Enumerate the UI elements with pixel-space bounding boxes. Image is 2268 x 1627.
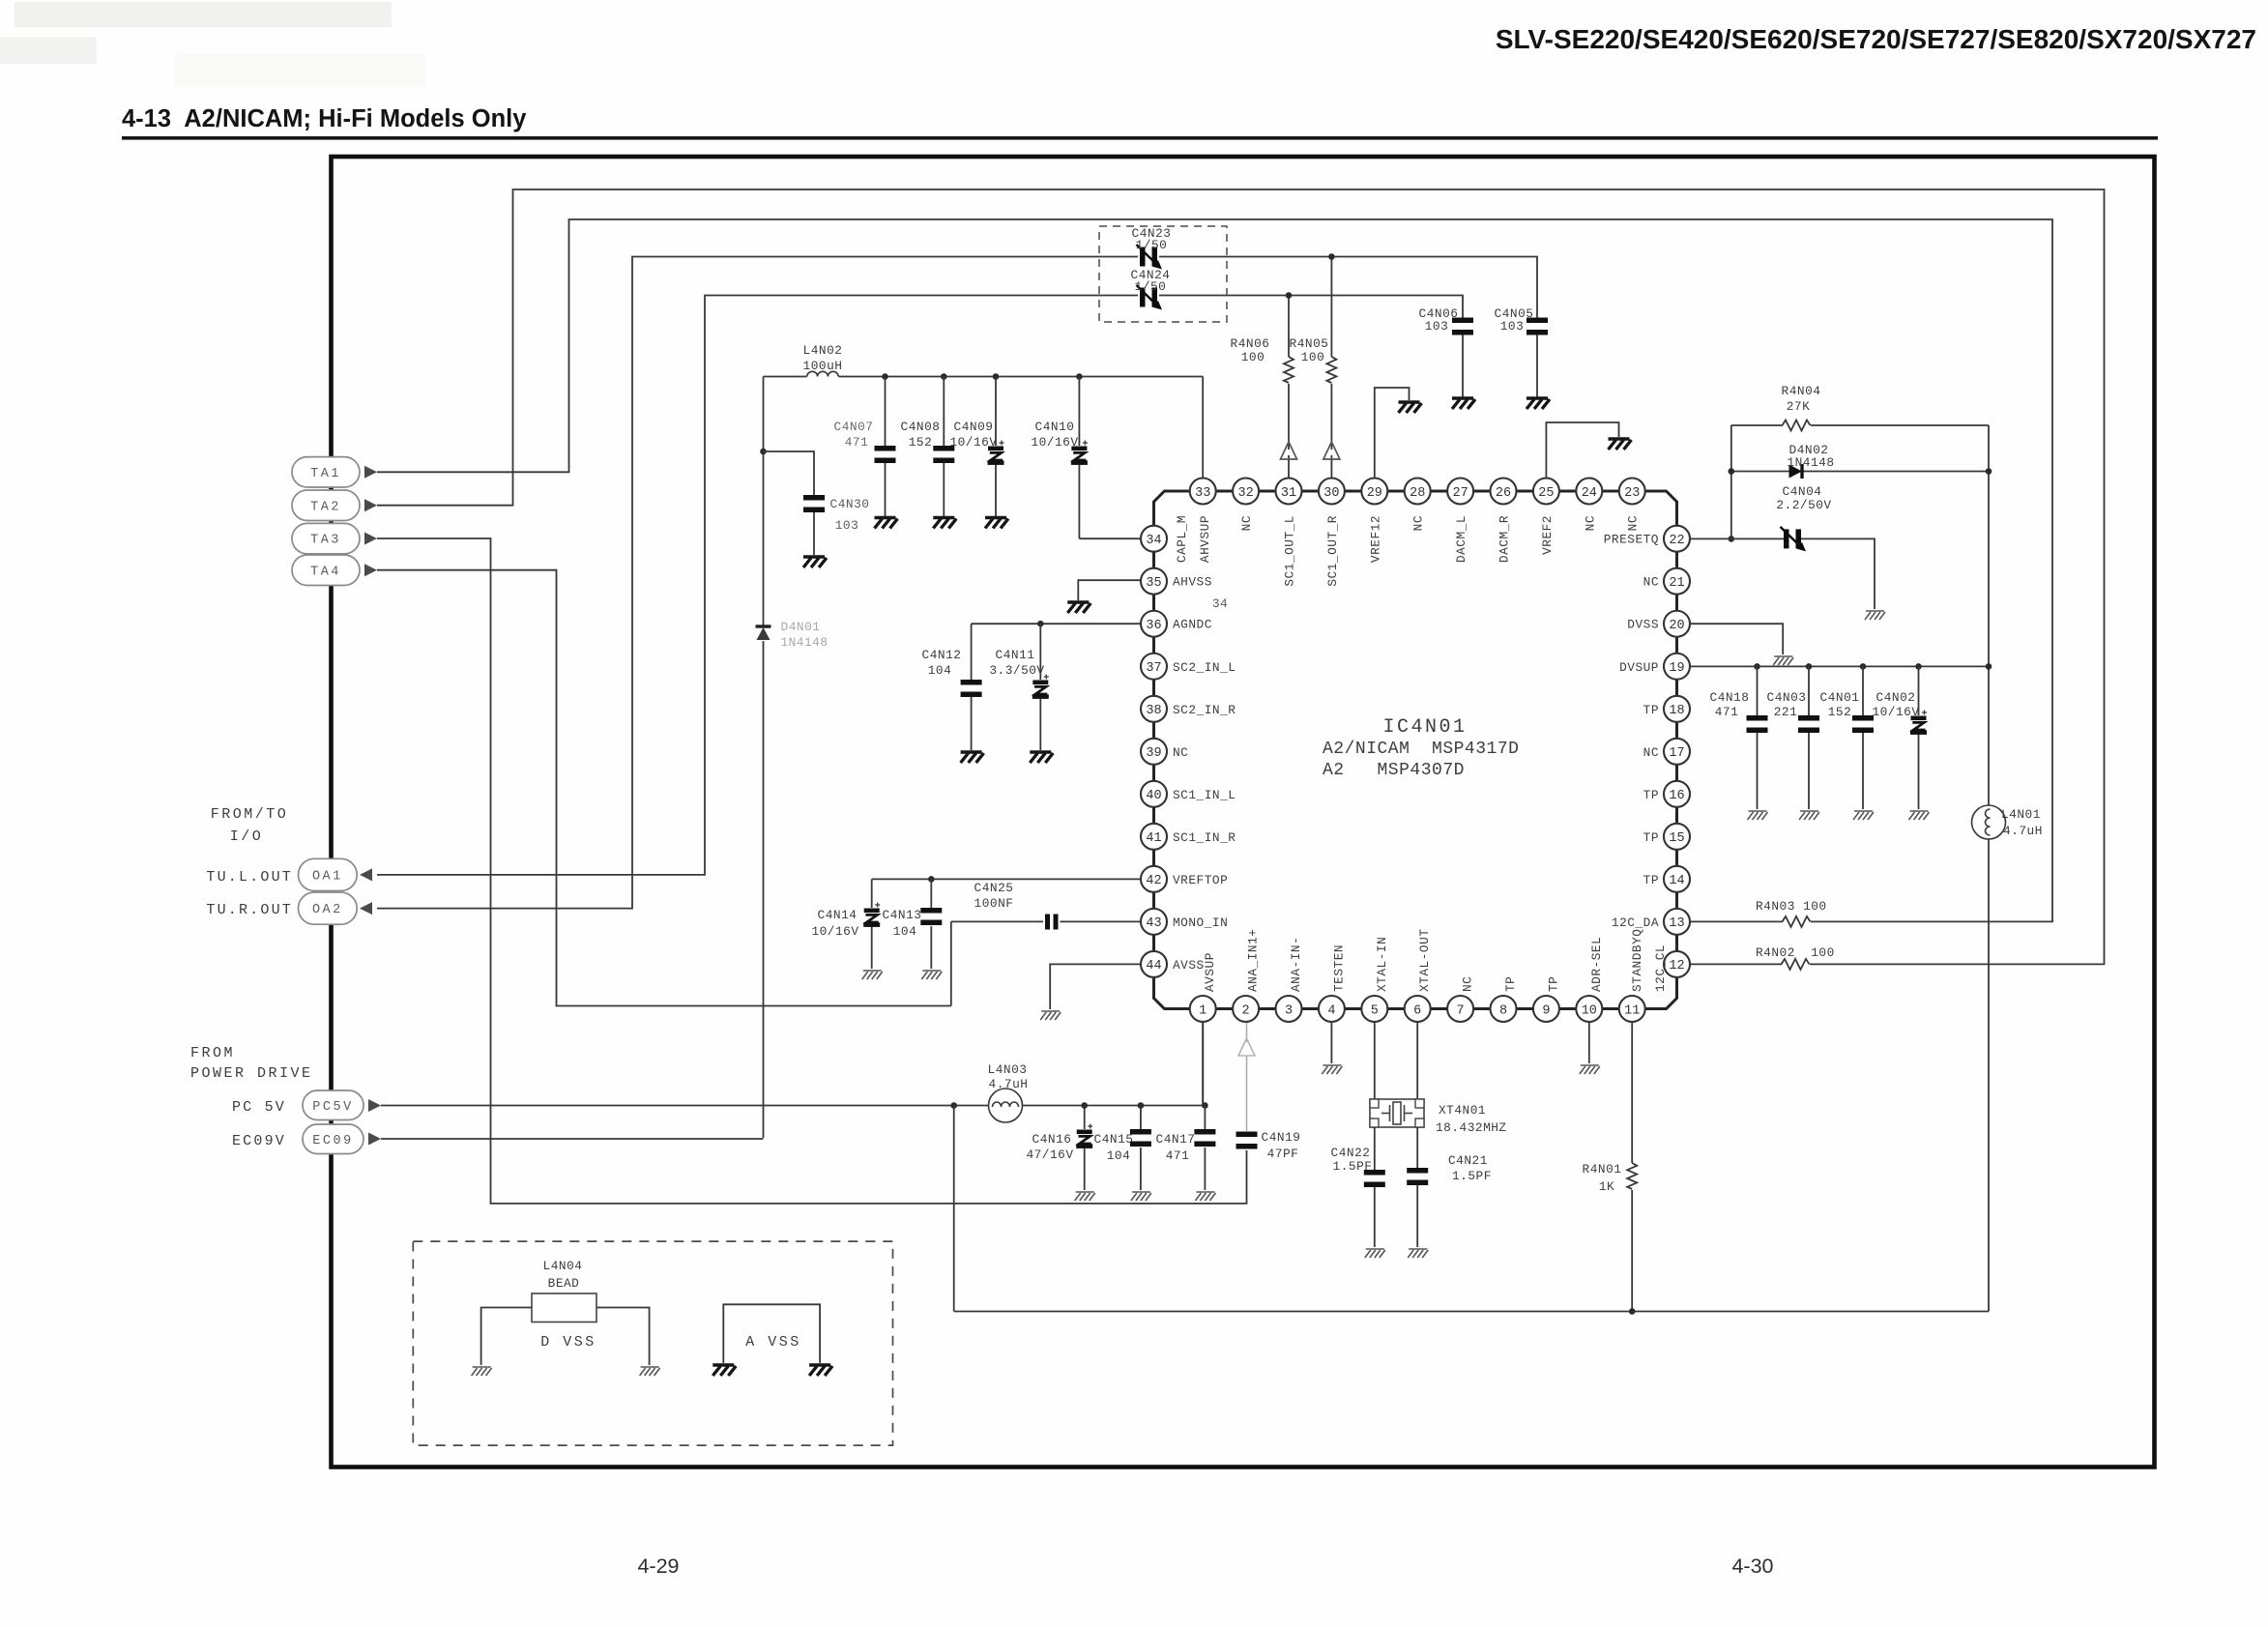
svg-text:C4N17: C4N17 [1156,1132,1196,1147]
wire C4N15 stem [1140,1106,1142,1130]
svg-text:28: 28 [1410,486,1425,501]
wire crystal right to C4N21 [1416,1127,1418,1168]
resistor R4N06 [1284,357,1294,383]
wire bead right to ground [596,1308,650,1366]
capacitor C4N10 (10/16V electrolytic) [1071,441,1088,465]
wire pin 11 STANDBYQ to rail [1631,1022,1633,1163]
svg-text:PRESETQ: PRESETQ [1604,533,1659,547]
wire PC5V to L4N03 [381,1105,988,1107]
ground below C4N16 [1075,1192,1095,1201]
svg-text:471: 471 [845,435,869,450]
svg-text:D4N01: D4N01 [781,620,821,634]
svg-text:POWER DRIVE: POWER DRIVE [190,1065,313,1082]
pin 27 of IC4N01 [1447,479,1473,505]
ground at pin 44 [1040,1011,1061,1020]
svg-text:C4N08: C4N08 [901,420,941,434]
svg-text:10/16V: 10/16V [811,924,858,939]
ground below C4N18 [1748,811,1768,820]
wire C4N16 stem [1084,1106,1086,1130]
svg-text:11: 11 [1624,1003,1640,1018]
wire pin 12 12C_CL to R4N02 [1691,963,1783,965]
capacitor C4N19 (47PF) [1236,1132,1258,1149]
pin 3 of IC4N01 [1276,996,1302,1022]
svg-text:12C_DA: 12C_DA [1612,915,1659,930]
pin 4 of IC4N01 [1319,996,1345,1022]
pin 7 of IC4N01 [1447,996,1473,1022]
svg-text:29: 29 [1367,486,1382,501]
capacitor C4N18 (471) [1747,715,1768,733]
svg-text:100NF: 100NF [974,896,1014,911]
pin 10 of IC4N01 [1576,996,1602,1022]
pin 43 of IC4N01 [1141,909,1167,935]
svg-text:C4N21: C4N21 [1448,1153,1488,1168]
capacitor C4N01 (152) [1852,715,1874,733]
svg-text:NC: NC [1583,515,1597,531]
wire pin 19 DVSUP rail [1691,665,1990,667]
svg-text:39: 39 [1146,746,1161,761]
junction C4N03 [1806,663,1813,670]
arrow TA3 [364,533,377,545]
svg-text:C4N22: C4N22 [1331,1146,1371,1160]
capacitor C4N09 (10/16V electrolytic) [988,441,1004,465]
pin 42 of IC4N01 [1141,866,1167,892]
pin 37 of IC4N01 [1141,654,1167,680]
ground below C4N07 [875,518,898,529]
svg-text:13: 13 [1669,916,1684,931]
pin 14 of IC4N01 [1664,866,1690,892]
svg-text:VREF2: VREF2 [1540,515,1555,555]
svg-text:221: 221 [1774,705,1798,719]
wire OA1 to C4N24/C4N06 loop (net SC1_OUT_L) [377,296,1138,875]
resistor R4N01 (1K) [1627,1163,1637,1189]
junction PRESETQ [1729,536,1735,542]
svg-text:19: 19 [1669,661,1684,676]
svg-text:AVSS: AVSS [1173,958,1205,973]
pin 13 of IC4N01 [1664,909,1690,935]
wire C4N14 stem [871,879,873,908]
svg-text:ANA_IN1+: ANA_IN1+ [1246,929,1261,992]
svg-text:C4N18: C4N18 [1710,690,1750,705]
arrow TA2 [364,499,377,511]
svg-text:27: 27 [1452,486,1468,501]
ground below C4N03 [1799,811,1819,820]
pin 2 of IC4N01 [1233,996,1259,1022]
svg-text:A VSS: A VSS [745,1334,801,1351]
svg-text:EC09: EC09 [312,1134,353,1148]
svg-text:C4N11: C4N11 [996,648,1035,662]
wire TA2 to R4N02 loop (net I2C_CL) [377,189,2105,964]
svg-text:41: 41 [1146,831,1161,846]
ground below C4N06 [1452,398,1475,409]
dashed box D VSS / A VSS [413,1241,892,1445]
svg-text:A2 MSP4307D: A2 MSP4307D [1323,761,1465,780]
svg-text:1N4148: 1N4148 [1787,455,1834,470]
pin 29 of IC4N01 [1361,479,1387,505]
wire pin 4 TESTEN to ground [1330,1022,1332,1063]
svg-text:FROM: FROM [190,1045,235,1061]
capacitor C4N02 (10/16V electrolytic) [1910,711,1927,735]
svg-text:VREF12: VREF12 [1368,515,1382,563]
svg-text:TA4: TA4 [310,565,341,579]
pin 30 of IC4N01 [1319,479,1345,505]
svg-text:33: 33 [1195,486,1210,501]
svg-text:471: 471 [1715,705,1739,719]
ground below C4N05 [1527,398,1550,409]
svg-text:BEAD: BEAD [548,1276,580,1291]
svg-text:9: 9 [1542,1003,1550,1018]
pin 11 of IC4N01 [1619,996,1645,1022]
capacitor C4N05 (103) [1527,318,1548,335]
junction PC5V riser [950,1102,957,1109]
pin 32 of IC4N01 [1233,479,1259,505]
svg-text:DACM_R: DACM_R [1497,515,1512,563]
heading underline [122,136,2158,140]
capacitor C4N22 (1.5PF) [1364,1170,1385,1187]
junction loop5/R4N06 [1286,292,1293,299]
svg-text:104: 104 [893,924,917,939]
svg-text:XTAL-OUT: XTAL-OUT [1417,929,1432,992]
svg-text:SC2_IN_L: SC2_IN_L [1173,660,1236,675]
junction DVSUP riser [1986,663,1992,670]
ground at pin 35 [1067,602,1090,613]
wire pin 43 MONO_IN through C4N25 [1061,920,1142,922]
svg-text:26: 26 [1496,486,1511,501]
arrow into OA1 [360,868,372,881]
pin 40 of IC4N01 [1141,781,1167,807]
wire C4N08 stem [943,377,945,447]
wire PC5V riser to standby rail [953,1106,955,1312]
wire pin 10 ADR-SEL to ground [1588,1022,1590,1063]
svg-text:40: 40 [1146,789,1161,803]
svg-text:2.2/50V: 2.2/50V [1776,498,1831,512]
crystal XT4N01 (18.432MHZ) [1370,1099,1424,1127]
wire C4N02 stem [1918,666,1920,715]
wire pin 44 AVSS to ground [1050,964,1141,1009]
svg-text:27K: 27K [1787,399,1811,414]
svg-text:EC09V: EC09V [232,1133,286,1149]
ground left of D VSS [472,1367,492,1376]
wire pin 35 AHVSS to ground [1078,580,1141,600]
svg-text:18: 18 [1669,704,1684,718]
svg-text:AGNDC: AGNDC [1173,618,1212,632]
svg-text:5: 5 [1371,1003,1379,1018]
svg-text:NC: NC [1461,976,1475,992]
svg-text:AVSUP: AVSUP [1203,952,1217,992]
svg-text:L4N03: L4N03 [988,1062,1028,1077]
capacitor C4N25 (100NF) [1045,915,1050,930]
svg-text:TP: TP [1546,976,1560,992]
wire C4N01 stem [1862,666,1864,715]
wire C4N06 to ground [1462,335,1464,398]
capacitor C4N30 (103) [803,495,825,512]
svg-text:D VSS: D VSS [540,1334,596,1351]
wire rail right down to pin 33 [1202,377,1204,479]
wire A VSS strap [723,1304,820,1363]
wire C4N25 down to TA4 net [950,921,952,1005]
svg-text:TESTEN: TESTEN [1331,944,1346,992]
svg-text:C4N14: C4N14 [818,908,858,922]
ground at pin 25 [1609,439,1632,450]
junction C4N15 [1138,1102,1145,1109]
svg-text:SC1_IN_R: SC1_IN_R [1173,830,1236,845]
ground below C4N17 [1195,1192,1215,1201]
svg-text:TP: TP [1503,976,1518,992]
svg-text:ADR-SEL: ADR-SEL [1589,937,1604,992]
svg-text:SC1_OUT_R: SC1_OUT_R [1325,515,1340,587]
ground below C4N22 [1365,1249,1385,1258]
pin 8 of IC4N01 [1491,996,1517,1022]
resistor R4N04 (27K) [1783,421,1811,431]
svg-text:C4N13: C4N13 [883,908,922,922]
svg-text:12C_CL: 12C_CL [1653,944,1668,992]
pin 41 of IC4N01 [1141,824,1167,850]
wire pin 42 VREFTOP to C4N14/C4N13 [872,878,1141,880]
svg-text:C4N30: C4N30 [830,497,870,511]
wire pin 13 12C_DA to R4N03 [1691,920,1784,922]
ground at pin 20 [1773,656,1793,665]
wire DVSUP riser down to rail [1988,666,1990,805]
svg-text:OA1: OA1 [312,869,343,884]
junction C4N30 tap [760,449,767,455]
svg-text:3.3/50V: 3.3/50V [989,663,1044,678]
pin 21 of IC4N01 [1664,568,1690,595]
inductor L4N03 (4.7uH) [989,1089,1023,1122]
pin 16 of IC4N01 [1664,781,1690,807]
svg-text:103: 103 [1425,319,1449,334]
svg-text:TA1: TA1 [310,467,341,481]
svg-text:100uH: 100uH [803,359,843,373]
diode D4N01 (1N4148) [756,626,771,640]
ground below C4N09 [985,518,1008,529]
svg-text:14: 14 [1669,874,1684,888]
wire C4N12 stem [971,624,973,680]
wire rail down-left to C4N30/D4N01 [763,377,765,626]
svg-text:6: 6 [1413,1003,1421,1018]
wire PRESETQ vertical [1730,425,1732,538]
svg-text:TP: TP [1643,788,1659,802]
svg-text:FROM/TO: FROM/TO [211,806,289,823]
svg-text:C4N01: C4N01 [1820,690,1860,705]
ground below C4N11 [1030,752,1053,763]
capacitor C4N17 (471) [1194,1129,1215,1147]
connector TA1 [292,457,360,487]
svg-text:C4N12: C4N12 [922,648,962,662]
svg-text:12: 12 [1669,959,1684,973]
pin 6 of IC4N01 [1405,996,1431,1022]
arrow into OA2 [360,902,372,915]
svg-text:1/50: 1/50 [1136,238,1168,252]
svg-text:TA2: TA2 [310,500,341,514]
svg-text:R4N06: R4N06 [1231,336,1270,351]
ground below C4N08 [933,518,956,529]
svg-text:10: 10 [1582,1003,1597,1018]
pin 20 of IC4N01 [1664,611,1690,637]
svg-text:R4N02 100: R4N02 100 [1756,945,1835,960]
capacitor C4N12 (104) [961,680,982,697]
ground below C4N12 [961,752,984,763]
capacitor C4N11 (3.3/50V electrolytic) [1032,675,1049,699]
svg-text:R4N04: R4N04 [1782,384,1821,398]
svg-text:15: 15 [1669,831,1684,846]
svg-text:C4N16: C4N16 [1032,1132,1072,1147]
wire pin 1 lead [1202,1022,1204,1106]
junction C4N16 [1081,1102,1088,1109]
svg-text:AHVSUP: AHVSUP [1198,515,1212,563]
svg-text:TA3: TA3 [310,534,341,548]
svg-text:103: 103 [835,518,859,533]
wire L4N03 to pin 1 AVSUP [1023,1105,1205,1107]
svg-text:NC: NC [1643,745,1659,760]
wire C4N10 to pin 34 CAPL_M [1079,537,1141,539]
svg-text:4: 4 [1327,1003,1335,1018]
svg-text:MONO_IN: MONO_IN [1173,915,1228,930]
svg-text:OA2: OA2 [312,903,343,917]
svg-text:DVSS: DVSS [1627,618,1659,632]
svg-text:R4N01: R4N01 [1583,1162,1622,1177]
wire C4N05 to ground [1536,335,1538,398]
wire C4N18 stem [1757,666,1759,715]
svg-text:42: 42 [1146,874,1161,888]
wire loop4 junction to pin 30 via R4N05 [1330,257,1332,358]
svg-text:C4N04: C4N04 [1783,484,1822,499]
capacitor C4N24 (trimmer, 1/50) [1137,285,1163,310]
svg-text:1.5PF: 1.5PF [1333,1159,1373,1174]
ground at pin 29 [1399,402,1422,413]
pin 44 of IC4N01 [1141,951,1167,977]
wire TA1 to R4N03 loop (net I2C_DA) [377,219,2052,921]
junction D4N02 right [1986,468,1992,475]
resistor R4N05 [1326,357,1336,383]
svg-text:152: 152 [1828,705,1852,719]
svg-text:30: 30 [1323,486,1339,501]
svg-text:35: 35 [1146,576,1161,591]
pin 15 of IC4N01 [1664,824,1690,850]
diode D4N02 (1N4148) [1789,464,1803,479]
svg-text:24: 24 [1582,486,1597,501]
inductor L4N02 (100uH) [807,371,838,376]
wire pin 36 AGNDC to C4N12/C4N11 [972,623,1141,625]
junction standby/pin11 [1629,1308,1636,1315]
junction C4N18 [1754,663,1760,670]
arrow TA4 [364,564,377,576]
svg-text:R4N05: R4N05 [1290,336,1329,351]
wire C4N22 to ground [1374,1187,1376,1247]
pin 26 of IC4N01 [1491,479,1517,505]
svg-text:4-30: 4-30 [1731,1554,1773,1578]
junction C4N01 [1860,663,1867,670]
wire C4N30 branch [764,451,815,495]
junction C4N07 [882,373,888,380]
wire TA4 to MONO_IN [377,570,951,1006]
svg-text:C4N25: C4N25 [974,881,1014,895]
ground right of D VSS [640,1367,660,1376]
svg-text:DVSUP: DVSUP [1619,660,1659,675]
connector OA1 [299,858,358,890]
junction loop4/R4N05 [1328,253,1335,260]
arrow EC09 [368,1133,381,1146]
pin 17 of IC4N01 [1664,739,1690,765]
pin 34 of IC4N01 [1141,526,1167,552]
svg-text:21: 21 [1669,576,1684,591]
svg-text:37: 37 [1146,661,1161,676]
pin 22 of IC4N01 [1664,526,1690,552]
svg-text:4-29: 4-29 [637,1554,679,1578]
svg-text:100: 100 [1301,350,1325,364]
capacitor C4N03 (221) [1798,715,1819,733]
ground at pin 4 [1322,1065,1342,1074]
ground right of A VSS [809,1365,832,1376]
svg-text:ANA-IN-: ANA-IN- [1289,937,1303,992]
ground below C4N04 [1865,611,1885,620]
svg-text:103: 103 [1500,319,1525,334]
junction C4N09 [993,373,1000,380]
svg-text:TP: TP [1643,830,1659,845]
svg-text:SLV-SE220/SE420/SE620/SE720/SE: SLV-SE220/SE420/SE620/SE720/SE727/SE820/… [1496,24,2256,54]
capacitor C4N21 (1.5PF) [1407,1168,1428,1185]
wire C4N03 stem [1808,666,1810,715]
svg-text:TU.L.OUT: TU.L.OUT [206,869,293,886]
inductor L4N01 (4.7uH) [1972,805,2006,839]
wire C4N07 stem [885,377,887,447]
junction C4N08 [941,373,947,380]
ground at pin 10 [1580,1065,1600,1074]
junction C4N02 [1915,663,1922,670]
capacitor C4N06 (103) [1452,318,1473,335]
wire C4N11 stem [1039,624,1041,680]
svg-text:44: 44 [1146,959,1161,973]
svg-text:18.432MHZ: 18.432MHZ [1436,1120,1507,1135]
wire C4N09 stem [995,377,997,447]
pin 9 of IC4N01 [1533,996,1559,1022]
wire pin 6 XTAL-OUT lead [1416,1022,1418,1099]
svg-text:VREFTOP: VREFTOP [1173,873,1228,887]
svg-text:NC: NC [1173,745,1188,760]
wire pin 20 DVSS to ground [1691,624,1784,654]
svg-text:1.5PF: 1.5PF [1452,1169,1492,1183]
svg-text:TU.R.OUT: TU.R.OUT [206,902,293,918]
pin 24 of IC4N01 [1576,479,1602,505]
svg-text:47PF: 47PF [1267,1147,1299,1161]
svg-text:SC2_IN_R: SC2_IN_R [1173,703,1236,717]
wire C4N21 to ground [1416,1185,1418,1247]
pin 5 of IC4N01 [1361,996,1387,1022]
svg-text:32: 32 [1237,486,1253,501]
wire standby rail [954,1311,1989,1313]
svg-text:C4N10: C4N10 [1035,420,1075,434]
spark gap protector at pin 31 [1281,442,1297,459]
svg-text:PC 5V: PC 5V [232,1099,286,1116]
svg-text:8: 8 [1499,1003,1507,1018]
svg-text:1N4148: 1N4148 [780,635,828,650]
pin 23 of IC4N01 [1619,479,1645,505]
svg-text:AHVSS: AHVSS [1173,575,1212,590]
resistor R4N02 (100) [1782,959,1810,970]
schematic border frame [332,157,2155,1467]
svg-text:38: 38 [1146,704,1161,718]
resistor R4N03 (100) [1783,916,1811,927]
capacitor C4N04 (2.2/50V trimmer style) [1781,527,1807,552]
junction C4N10 [1076,373,1083,380]
wire pin 25 VREF2 to ground [1546,422,1618,479]
wire D4N02 branch [1731,471,1789,473]
connector OA2 [299,892,358,924]
svg-text:XTAL-IN: XTAL-IN [1375,937,1389,992]
svg-text:20: 20 [1669,619,1684,633]
dashed box around C4N23/C4N24 [1099,226,1227,322]
svg-text:SC1_OUT_L: SC1_OUT_L [1283,515,1297,587]
pin 38 of IC4N01 [1141,696,1167,722]
svg-text:43: 43 [1146,916,1161,931]
